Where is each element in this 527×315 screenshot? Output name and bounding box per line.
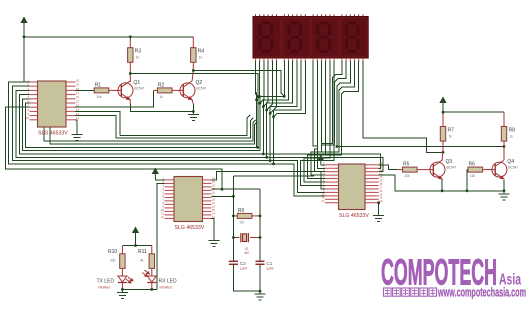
svg-text:BC547: BC547 bbox=[197, 86, 207, 90]
wire d4 pin 2 staircase bbox=[321, 61, 346, 145]
svg-text:BC547: BC547 bbox=[508, 166, 518, 170]
wire bus wrap 4 from U1 pin bbox=[20, 95, 264, 154]
node bus tee bbox=[269, 159, 272, 162]
IC U3 SLG46533V pin numbers bbox=[161, 176, 216, 219]
wire bus wrap 6 from U1 pin bbox=[26, 103, 257, 147]
wire bus wrap 2 from U1 pin bbox=[13, 86, 271, 160]
node staircase junction bbox=[262, 105, 265, 108]
wire U2 to R5 bbox=[379, 165, 397, 170]
wire Q3 emitter rail to Q4 gnd bbox=[442, 190, 504, 192]
wire bus extra line A bbox=[116, 118, 253, 139]
svg-text:R1: R1 bbox=[95, 82, 102, 88]
wire R6 left riser bbox=[466, 170, 468, 191]
IC U2 SLG46533V pins bbox=[325, 165, 379, 203]
node junction bbox=[221, 188, 224, 191]
IC U3 SLG46533V pins bbox=[165, 180, 212, 219]
node junction bbox=[503, 189, 506, 192]
wire bus d2 pin 4 staircase bbox=[267, 61, 297, 110]
wire U3 pin to U2 line bbox=[212, 172, 326, 189]
crystal X1 bbox=[241, 233, 249, 242]
logo CJK line 智慧電子設計 (drawn as blocks) bbox=[384, 288, 437, 296]
ground TX LED ground bbox=[117, 289, 128, 298]
display digit 4 segments bbox=[347, 23, 359, 52]
svg-text:TX LED: TX LED bbox=[97, 279, 115, 285]
svg-text:R5: R5 bbox=[403, 162, 410, 168]
power U2 VCC bbox=[318, 156, 324, 165]
wire d3 pin 3 to U2 bbox=[311, 61, 325, 175]
wire lead bottom R3 bbox=[129, 62, 131, 73]
wire Q4 emitter down bbox=[503, 180, 505, 191]
svg-text:1k: 1k bbox=[136, 56, 140, 60]
svg-text:1k: 1k bbox=[199, 56, 203, 60]
node junction bbox=[23, 35, 26, 38]
transistor Q1 bbox=[118, 81, 133, 100]
wire d3 pin 1 to U2 bbox=[313, 61, 325, 168]
node junction bbox=[192, 110, 195, 113]
node junction bbox=[283, 95, 286, 98]
node junction bbox=[129, 72, 132, 75]
wire lead bottom R7 bbox=[442, 141, 444, 152]
wire bus wrap 3 from U1 pin bbox=[16, 90, 267, 157]
wire d3 pin 6 to U2 bbox=[301, 61, 334, 186]
wire U3 power to pin1 bbox=[155, 178, 164, 180]
wire lead top R11 bbox=[151, 246, 153, 254]
wire bus wrap 7 to U3 branch bbox=[6, 107, 223, 189]
IC U1 SLG46533V pin numbers bbox=[26, 78, 80, 120]
node junction bbox=[441, 189, 444, 192]
wire LED VCC rail bbox=[122, 245, 151, 247]
node staircase junction bbox=[269, 112, 272, 115]
wire lead left R2 bbox=[154, 89, 158, 91]
IC U1 SLG46533V body bbox=[38, 81, 67, 127]
node junction bbox=[192, 69, 195, 72]
node junction bbox=[442, 111, 445, 114]
ground oscillator ground bbox=[255, 291, 266, 300]
wire U2 pin to ground bbox=[378, 203, 380, 213]
wire lead top R8 bbox=[503, 112, 505, 126]
node junction bbox=[150, 288, 153, 291]
wire bus d2 pin 6 staircase bbox=[274, 61, 306, 117]
svg-text:Q1: Q1 bbox=[134, 80, 141, 86]
svg-text:InfraRed: InfraRed bbox=[98, 286, 110, 290]
wire lead left R5 bbox=[397, 169, 403, 171]
wire bus rise 2 to display d1 bbox=[270, 61, 272, 161]
wire Q1 emitter stub bbox=[129, 100, 131, 104]
resistor R3 bbox=[128, 48, 133, 63]
svg-text:R11: R11 bbox=[138, 249, 147, 255]
wire lead left R6 bbox=[467, 169, 468, 171]
wire bus over U2 top B bbox=[267, 157, 384, 171]
display digit 4 cell bbox=[340, 18, 367, 57]
7-segment display 4-digit block bbox=[253, 17, 368, 59]
svg-text:330: 330 bbox=[110, 258, 116, 262]
svg-text:SLG 46533V: SLG 46533V bbox=[38, 131, 68, 137]
svg-text:R6: R6 bbox=[469, 162, 476, 168]
wire bus d2 pin 1 staircase bbox=[257, 61, 285, 100]
capacitor C1 bbox=[256, 261, 265, 264]
resistor R2 bbox=[157, 88, 172, 93]
node junction bbox=[259, 215, 262, 218]
wire Q2 collector to display common bbox=[193, 71, 284, 97]
wire bus to U2 left row B bbox=[274, 164, 326, 196]
svg-text:12PF: 12PF bbox=[240, 267, 248, 271]
wire d4 pin 1 staircase bbox=[321, 61, 342, 143]
node junction bbox=[442, 151, 445, 154]
node junction bbox=[232, 236, 235, 239]
wire lead top R7 bbox=[442, 112, 444, 126]
wire bus d2 pin 3 staircase bbox=[263, 61, 292, 107]
wire U1 right pin wrap A bbox=[75, 111, 120, 135]
svg-text:4M: 4M bbox=[244, 251, 249, 255]
node junction bbox=[232, 195, 235, 198]
power LED VCC bbox=[133, 228, 139, 237]
wire Q2 emitter down bbox=[192, 104, 194, 112]
node junction bbox=[259, 290, 262, 293]
node junction bbox=[256, 146, 259, 149]
wire LED cathode leads bbox=[121, 283, 123, 290]
wire lead right R5 bbox=[417, 169, 433, 171]
wire U3 pin2 to IR sensor bbox=[157, 183, 165, 289]
wire d4 pin 5 staircase bbox=[321, 61, 359, 155]
wire lead bottom R11 bbox=[151, 268, 153, 276]
node junction bbox=[259, 236, 262, 239]
wire U1 pin to ground bbox=[75, 120, 77, 132]
svg-text:R10: R10 bbox=[108, 249, 117, 255]
wire lead right R1 bbox=[109, 89, 122, 91]
wire d4 pin 3 staircase bbox=[337, 61, 350, 147]
display digit 3 segments bbox=[318, 23, 330, 52]
resistor R10 bbox=[120, 254, 125, 269]
wire bus rise 4 to display d1 bbox=[262, 61, 265, 154]
power VCC top-left bbox=[21, 18, 27, 27]
wire d3 pin 5 to U2 bbox=[304, 61, 330, 182]
node junction bbox=[503, 145, 506, 148]
node junction bbox=[232, 215, 235, 218]
wire VCC down to U1 pin1 bbox=[24, 27, 30, 83]
wire bus wrap 5 from U1 pin bbox=[23, 99, 260, 151]
svg-text:R8: R8 bbox=[509, 128, 516, 134]
node junction bbox=[121, 288, 124, 291]
resistor R5 bbox=[403, 167, 418, 172]
wire crystal leads bbox=[233, 237, 239, 239]
wire d3 pin 2 to U2 bbox=[314, 61, 325, 172]
wire Q1 emitter to gnd rail bbox=[130, 104, 193, 112]
wire bus extra line C bbox=[44, 120, 256, 141]
LED TX LED bbox=[118, 276, 127, 283]
wire U2 power to pin1 bbox=[321, 164, 325, 166]
svg-text:Q4: Q4 bbox=[507, 159, 514, 165]
wire osc right rail bbox=[259, 189, 261, 261]
wire LED power stem bbox=[135, 237, 137, 246]
resistor R7 bbox=[440, 127, 445, 142]
wire right VCC rail bbox=[443, 107, 504, 113]
wire bus over U2 top A bbox=[263, 154, 380, 168]
svg-text:C2: C2 bbox=[240, 261, 246, 266]
svg-text:C1: C1 bbox=[266, 261, 272, 266]
svg-text:4k: 4k bbox=[140, 258, 144, 262]
display bottom pin stubs bbox=[256, 58, 363, 62]
svg-text:R2: R2 bbox=[158, 82, 165, 88]
wire d3 pin 4 to U2 bbox=[308, 61, 326, 179]
svg-text:1M: 1M bbox=[239, 220, 244, 224]
wire bus wrap 1 from U1 pin bbox=[9, 82, 274, 164]
wire U3 osc line upper bbox=[233, 175, 314, 177]
resistor R6 bbox=[468, 167, 483, 172]
svg-text:Q3: Q3 bbox=[446, 159, 453, 165]
svg-text:1k: 1k bbox=[159, 95, 163, 99]
wire lead bottom R4 bbox=[192, 62, 194, 70]
arrows received RX LED bbox=[142, 270, 149, 277]
wire lead right R6 bbox=[483, 169, 496, 171]
node bus tee bbox=[265, 156, 268, 159]
wire Q1 collector stub bbox=[129, 74, 131, 83]
wire stub bbox=[378, 202, 380, 204]
wire bus extra line B bbox=[120, 115, 250, 135]
svg-text:SLG 46533V: SLG 46533V bbox=[339, 213, 369, 219]
svg-text:Q2: Q2 bbox=[196, 80, 203, 86]
wire bus d2 pin 2 staircase bbox=[260, 61, 289, 103]
wire lead bottom R8 bbox=[503, 141, 505, 160]
display digit 3 cell bbox=[312, 18, 339, 57]
power U3 VCC bbox=[153, 169, 159, 178]
capacitor C2 bbox=[229, 261, 238, 264]
svg-text:1k: 1k bbox=[510, 135, 514, 139]
ground U2 ground bbox=[373, 213, 384, 222]
node bus tee bbox=[262, 153, 265, 156]
wire lead top R4 bbox=[192, 37, 194, 48]
wire top VCC rail bbox=[24, 36, 193, 38]
resistor R11 bbox=[149, 254, 154, 269]
wire bus d2 pin 5 staircase bbox=[270, 61, 301, 113]
wire lead top R3 bbox=[129, 37, 131, 48]
node junction bbox=[336, 145, 339, 148]
wire lead right R2 bbox=[172, 89, 183, 91]
wire lead top R10 bbox=[121, 246, 123, 254]
svg-text:22PF: 22PF bbox=[266, 267, 274, 271]
node junction bbox=[377, 201, 380, 204]
node junction bbox=[129, 35, 132, 38]
svg-text:1k: 1k bbox=[449, 135, 453, 139]
node bus tee bbox=[272, 163, 275, 166]
svg-text:10k: 10k bbox=[96, 95, 102, 99]
wire bus extra line D bbox=[50, 122, 257, 144]
wire Q3 emitter to U2 bbox=[379, 175, 442, 191]
wire Q2 collector stub bbox=[192, 71, 193, 81]
node staircase junction bbox=[259, 102, 262, 105]
wire d4 pin 4 staircase bbox=[321, 61, 355, 152]
LED RX LED bbox=[147, 276, 156, 283]
wire lead bottom R10 bbox=[121, 268, 123, 276]
node staircase junction bbox=[272, 115, 275, 118]
wire lead right R9 bbox=[252, 215, 260, 217]
wire bus rise 6 to display d1 bbox=[256, 61, 257, 147]
IC U2 SLG46533V body bbox=[339, 164, 366, 210]
power VCC right bbox=[440, 98, 446, 107]
svg-text:R7: R7 bbox=[448, 128, 455, 134]
wire bus rise 5 to display d1 bbox=[259, 61, 261, 151]
svg-text:12: 12 bbox=[161, 215, 165, 219]
wire U1 to R1 bbox=[75, 89, 94, 91]
ground U1 ground bbox=[71, 132, 82, 141]
node junction bbox=[466, 189, 469, 192]
resistor R8 bbox=[501, 127, 506, 142]
display digit 2 cell bbox=[283, 18, 310, 57]
svg-text:RX LED: RX LED bbox=[159, 279, 177, 285]
wire U1 right pin wrap B bbox=[75, 116, 116, 138]
wire osc left rail bbox=[232, 176, 234, 261]
svg-text:BC547: BC547 bbox=[135, 86, 145, 90]
wire LED bottom rail bbox=[122, 288, 156, 290]
display digit 1 segments bbox=[260, 23, 272, 52]
wire bus rise 3 to display d1 bbox=[267, 61, 268, 157]
wire bus rise 1 to display d1 bbox=[274, 61, 277, 164]
node staircase junction bbox=[265, 109, 268, 112]
resistor R4 bbox=[191, 48, 196, 63]
transistor Q2 bbox=[180, 81, 195, 100]
transistor Q4 bbox=[492, 160, 507, 179]
transistor Q3 bbox=[430, 160, 445, 179]
ground Q2 emitter ground bbox=[188, 112, 199, 121]
ground Q4 emitter ground bbox=[499, 191, 510, 200]
wire Q2 emitter stub bbox=[192, 100, 193, 104]
arrows emitted TX LED bbox=[126, 277, 133, 283]
wire U3 pin to osc right bbox=[212, 188, 261, 190]
wire U3 pin to osc rail bbox=[212, 195, 234, 197]
svg-text:R9: R9 bbox=[238, 208, 245, 214]
wire U1 to R2 left bbox=[75, 90, 154, 107]
display digit 1 cell bbox=[254, 18, 281, 57]
display top pin stubs bbox=[256, 14, 363, 16]
svg-text:10k: 10k bbox=[470, 174, 476, 178]
wire C1 to bottom rail bbox=[259, 264, 261, 291]
IC U3 SLG46533V body bbox=[174, 177, 203, 222]
resistor R9 bbox=[237, 213, 252, 218]
wire osc bottom rail bbox=[233, 264, 260, 291]
svg-text:www.compotechasia.com: www.compotechasia.com bbox=[437, 286, 526, 300]
wire bus to U2 left row A bbox=[270, 161, 325, 193]
svg-text:12: 12 bbox=[321, 199, 325, 203]
node junction bbox=[134, 244, 137, 247]
svg-text:InfraRed: InfraRed bbox=[160, 286, 172, 290]
wire Q1 collector to display common bbox=[130, 74, 257, 148]
node staircase junction bbox=[255, 98, 258, 101]
node junction bbox=[256, 95, 259, 98]
wire Q3 collector stub bbox=[441, 152, 443, 160]
IC U2 SLG46533V pin numbers bbox=[321, 161, 382, 203]
wire drive line to Q4 bbox=[337, 146, 504, 148]
svg-text:BC547: BC547 bbox=[447, 166, 457, 170]
svg-text:10k: 10k bbox=[405, 174, 411, 178]
wire lead left R9 bbox=[233, 215, 237, 217]
wire drive line d4 to Q3 bbox=[363, 61, 443, 152]
svg-text:R3: R3 bbox=[135, 49, 142, 55]
ground U3 ground bbox=[208, 238, 219, 247]
svg-text:SLG 46533V: SLG 46533V bbox=[175, 225, 205, 231]
svg-text:R4: R4 bbox=[198, 49, 205, 55]
display digit 2 segments bbox=[289, 23, 301, 52]
wire U3 pin to ground bbox=[212, 218, 214, 237]
IC U1 SLG46533V pins bbox=[30, 82, 76, 120]
resistor R1 bbox=[94, 88, 109, 93]
svg-text:10: 10 bbox=[26, 116, 30, 120]
